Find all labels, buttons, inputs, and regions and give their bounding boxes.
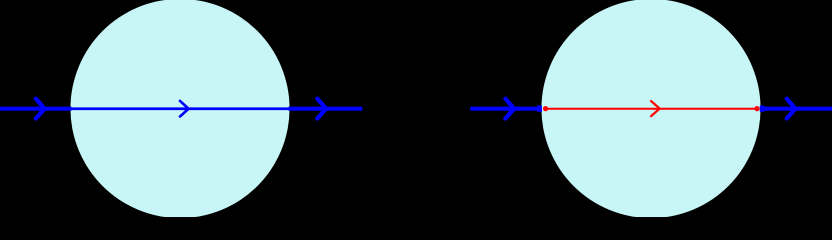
arrow on incident ray right	[505, 99, 514, 119]
bar tick at exit surface	[760, 106, 765, 112]
arrow on incident ray left	[36, 99, 45, 119]
wire exit ray right (thick blue)	[762, 107, 832, 111]
wire internal ray left diagram (thin blue chord)	[72, 107, 289, 110]
wire exit ray left (thick blue)	[289, 107, 363, 111]
arrow on exit ray left	[317, 99, 326, 119]
wire incident ray left (thick blue)	[0, 107, 72, 111]
sphere (right circle)	[541, 0, 760, 218]
wire incident ray right (thick blue)	[470, 107, 541, 111]
sphere (left circle)	[70, 0, 289, 218]
arrow on exit ray right	[787, 99, 796, 119]
node exit point (red dot)	[754, 106, 759, 111]
wire internal ray right diagram (thin red chord)	[546, 108, 758, 110]
node entry point (red dot)	[543, 106, 548, 111]
arrow mid chord left diagram	[180, 101, 189, 117]
arrow mid chord right diagram (red)	[651, 101, 660, 116]
bar tick at entry surface	[537, 106, 542, 112]
